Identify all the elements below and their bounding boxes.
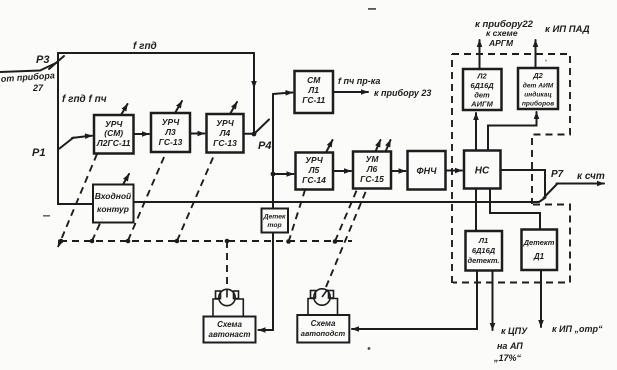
svg-text:к ЦПУ: к ЦПУ xyxy=(501,326,528,336)
wire НС to Д1 detector xyxy=(490,189,540,230)
svg-text:Схема: Схема xyxy=(311,319,336,328)
svg-text:Р4: Р4 xyxy=(258,140,271,152)
motor M2 xyxy=(308,289,338,315)
svg-text:6Д16Д: 6Д16Д xyxy=(470,81,494,90)
svg-text:СМ: СМ xyxy=(307,75,321,85)
node branch to УРЧ Л5 xyxy=(271,172,276,177)
tuning arrow of УРЧ Л5 xyxy=(326,140,333,153)
dashed enclosure top АРГМ unit xyxy=(452,54,570,204)
block УРЧ Л3 ГС-13 xyxy=(151,113,190,152)
switch Р7 xyxy=(544,184,558,198)
svg-text:дет АИМ: дет АИМ xyxy=(523,82,554,90)
block СМ Л1 ГС-11 xyxy=(295,71,334,113)
wire к ИП отр xyxy=(540,270,542,327)
svg-text:ФНЧ: ФНЧ xyxy=(417,166,438,176)
svg-text:АРГМ: АРГМ xyxy=(488,38,514,48)
block Л1 6Д16Д детект xyxy=(466,231,503,271)
svg-text:Л2: Л2 xyxy=(476,72,487,81)
wire trunk vertical x273 (Р4 to СМ / Л5 / детектор / автонастройка) xyxy=(263,94,273,330)
svg-text:к ИП ПАД: к ИП ПАД xyxy=(545,24,590,35)
svg-text:тор: тор xyxy=(267,222,281,229)
block Л2 6Д16Д дет АРГМ xyxy=(463,69,502,110)
dashed link d1 to УРЧ Л2 xyxy=(58,154,97,247)
svg-text:дет: дет xyxy=(474,91,490,100)
svg-text:ГС-13: ГС-13 xyxy=(159,137,183,147)
wire to СМ mixer xyxy=(273,93,293,95)
svg-text:Р3: Р3 xyxy=(36,54,49,66)
svg-text:Л6: Л6 xyxy=(366,164,378,174)
block НС xyxy=(464,151,501,189)
block УРЧ Л4 ГС-13 xyxy=(207,114,244,153)
block Входной контур xyxy=(93,185,134,223)
svg-text:Входной: Входной xyxy=(95,191,132,201)
svg-text:контур: контур xyxy=(97,204,129,214)
wire НС to Л1 detector xyxy=(475,189,477,232)
svg-text:(СМ): (СМ) xyxy=(104,128,123,138)
wire НС to Д2 detector xyxy=(488,112,537,151)
svg-text:ГС-11: ГС-11 xyxy=(302,95,325,105)
block Схема автонаст xyxy=(204,317,256,343)
scan speck xyxy=(43,215,50,217)
dashed link d3 to УРЧ Л3 xyxy=(128,153,166,241)
wire into УРЧ Л2 xyxy=(72,136,92,138)
svg-text:Л4: Л4 xyxy=(219,128,231,138)
block УРЧ (СМ) Л2ГС-11 xyxy=(94,115,134,154)
svg-text:f гпд f пч: f гпд f пч xyxy=(62,94,107,105)
wire НС to Л2 detector xyxy=(475,113,477,151)
wire input from device 27 xyxy=(0,71,40,73)
dashed link to motor M1 xyxy=(226,241,228,287)
wire f гпд vertical drop to node Р4 xyxy=(253,53,255,88)
block УМ Л6 ГС-15 xyxy=(353,152,391,189)
block Схема автоподст xyxy=(297,315,349,343)
svg-text:Л2ГС-11: Л2ГС-11 xyxy=(96,138,131,148)
wire к счт xyxy=(557,183,605,185)
svg-text:индикац: индикац xyxy=(524,91,551,99)
dashed link d5 to УРЧ Л5 xyxy=(289,190,306,242)
block Детект Д1 xyxy=(522,230,558,271)
dashed link d2 to Входной контур xyxy=(92,219,102,241)
dashed mechanical tuning bus xyxy=(60,240,352,242)
svg-text:ГС-14: ГС-14 xyxy=(302,175,326,185)
wire Л1 to схема автоподст xyxy=(356,271,477,330)
switch Р3 xyxy=(49,56,64,69)
switch Р4 xyxy=(254,120,269,135)
svg-text:на АП: на АП xyxy=(497,341,523,351)
wire к ИП ПАД xyxy=(535,40,537,68)
svg-text:автоподст: автоподст xyxy=(301,329,346,338)
switch Р1 xyxy=(60,138,74,149)
svg-text:Схема: Схема xyxy=(217,320,242,329)
svg-text:ГС-15: ГС-15 xyxy=(360,174,384,184)
dashed enclosure left edge xyxy=(451,54,453,283)
svg-text:Л3: Л3 xyxy=(164,127,176,137)
svg-text:к ИП „отр“: к ИП „отр“ xyxy=(552,324,603,334)
wire antenna bus vertical to Входной контур xyxy=(58,53,92,204)
svg-text:к схеме: к схеме xyxy=(486,28,518,38)
block детектор xyxy=(262,209,289,233)
dashed link motor M2 to УМ Л6 xyxy=(326,189,367,288)
block Д2 дет АИМ индикац приборов xyxy=(518,68,558,109)
svg-text:Д2: Д2 xyxy=(532,71,543,80)
svg-text:автонаст: автонаст xyxy=(209,330,251,339)
motor M1 xyxy=(213,289,243,316)
svg-text:Р1: Р1 xyxy=(32,147,45,159)
svg-text:Детект: Детект xyxy=(523,238,555,247)
wire УМ Л6 to ФНЧ xyxy=(391,170,406,172)
wire УРЧ Л5 to УМ Л6 xyxy=(333,170,351,172)
tuning arrow of Входной контур xyxy=(123,174,129,185)
dashed link to УМ Л6 xyxy=(335,190,357,242)
wire to УРЧ Л5 xyxy=(273,173,294,175)
svg-text:Л5: Л5 xyxy=(308,165,320,175)
wire ФНЧ to НС xyxy=(446,170,463,172)
tuning arrow of УРЧ Л4 xyxy=(230,102,237,114)
wire к ЦПУ xyxy=(492,271,494,331)
svg-text:Д1: Д1 xyxy=(533,252,545,261)
svg-text:Р7: Р7 xyxy=(551,169,564,180)
nodes on tuning bus xyxy=(59,239,338,244)
dashed link d4 to УРЧ Л4 xyxy=(177,153,215,241)
wire УРЧ Л2 to УРЧ Л3 xyxy=(134,133,150,135)
svg-text:УРЧ: УРЧ xyxy=(162,117,180,127)
svg-text:НС: НС xyxy=(475,166,490,177)
tuning arrow of УРЧ Л2 xyxy=(121,104,128,115)
svg-text:„17%“: „17%“ xyxy=(493,353,522,363)
svg-text:детект.: детект. xyxy=(467,256,499,265)
node Р4 junction xyxy=(252,132,257,137)
svg-text:f пч пр-ка: f пч пр-ка xyxy=(338,76,380,86)
svg-text:Детек: Детек xyxy=(263,214,286,221)
svg-text:f гпд: f гпд xyxy=(133,41,157,52)
tuning arrow of УРЧ Л3 xyxy=(175,101,182,113)
svg-text:УРЧ: УРЧ xyxy=(305,155,323,165)
svg-text:АИГМ: АИГМ xyxy=(470,100,493,109)
wire к прибору 22 xyxy=(479,40,481,69)
wire НС output to Р7 xyxy=(501,170,546,197)
wire УРЧ Л3 to УРЧ Л4 xyxy=(190,133,205,135)
block УРЧ Л5 ГС-14 xyxy=(296,153,334,190)
wire УРЧ Л4 to node Р4 xyxy=(244,133,255,135)
tuning arrows of УМ Л6 xyxy=(376,140,381,152)
svg-text:приборов: приборов xyxy=(522,100,554,108)
wire AGC long bus y202 xyxy=(134,198,546,203)
wire f гпд top line with corner xyxy=(58,52,254,54)
wire f пч output to device 23 xyxy=(333,91,368,93)
dashed enclosure bottom detector unit xyxy=(453,205,570,283)
svg-text:ГС-13: ГС-13 xyxy=(213,138,237,148)
svg-text:к счт: к счт xyxy=(577,171,605,182)
svg-text:Л1: Л1 xyxy=(307,85,319,95)
block ФНЧ xyxy=(408,151,446,190)
svg-text:27: 27 xyxy=(32,83,44,93)
svg-text:УРЧ: УРЧ xyxy=(216,118,234,128)
svg-text:Л1: Л1 xyxy=(478,236,488,245)
svg-text:УМ: УМ xyxy=(366,154,380,164)
svg-text:к прибору 23: к прибору 23 xyxy=(374,88,431,98)
svg-text:6Д16Д: 6Д16Д xyxy=(472,246,496,255)
